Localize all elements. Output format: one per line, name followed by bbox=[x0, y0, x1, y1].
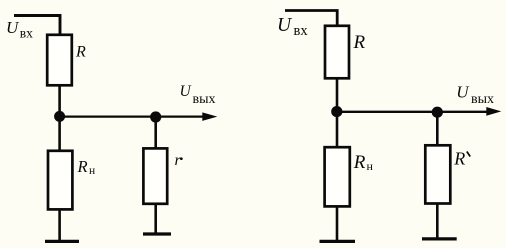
ground under r left bbox=[143, 232, 171, 235]
svg-text:н: н bbox=[89, 165, 95, 177]
svg-text:U: U bbox=[277, 15, 293, 36]
arrow: output right bbox=[486, 107, 501, 116]
wire: r to ground left bbox=[154, 203, 157, 233]
wire: left circuit input (horizontal then down to R) bbox=[14, 16, 60, 35]
svg-text:R: R bbox=[77, 157, 88, 176]
resistor R left bbox=[47, 35, 72, 86]
svg-text:R: R bbox=[353, 32, 366, 53]
svg-text:r: r bbox=[175, 152, 182, 169]
wire: node2 to R' right bbox=[436, 112, 439, 145]
ground under R_n left bbox=[45, 240, 79, 243]
svg-text:вх: вх bbox=[20, 25, 33, 40]
wire: R' to ground right bbox=[436, 203, 439, 238]
wire: node1 to R_n left bbox=[58, 116, 61, 150]
resistor r left bbox=[143, 148, 167, 203]
svg-text:вх: вх bbox=[294, 23, 309, 39]
wire: R_n to ground left bbox=[58, 209, 61, 241]
svg-text:U: U bbox=[6, 18, 20, 37]
resistor R' right bbox=[425, 145, 450, 203]
svg-text:н: н bbox=[367, 159, 374, 173]
node junction 1 left bbox=[54, 111, 65, 122]
svg-text:R: R bbox=[75, 44, 86, 61]
ground under R_n right bbox=[320, 240, 356, 243]
resistor R_n left bbox=[48, 151, 72, 210]
node junction 2 right bbox=[432, 107, 443, 118]
ground under R' right bbox=[422, 237, 457, 240]
wire: node2 to r left bbox=[154, 117, 157, 148]
wire: R bottom to node 1 left bbox=[58, 86, 61, 116]
wire: output line right bbox=[337, 111, 496, 113]
wire: right circuit input (horizontal then down to R) bbox=[285, 11, 337, 27]
wire: R bottom to node 1 right bbox=[336, 78, 339, 112]
wire: output line left bbox=[60, 115, 212, 117]
resistor R_n right bbox=[325, 147, 350, 206]
svg-text:U: U bbox=[180, 83, 193, 100]
node junction 2 left bbox=[150, 111, 161, 122]
svg-text:вых: вых bbox=[193, 92, 216, 107]
svg-text:U: U bbox=[456, 83, 470, 102]
svg-text:R: R bbox=[353, 152, 366, 173]
node junction 1 right bbox=[331, 106, 342, 117]
svg-text:R: R bbox=[453, 149, 465, 169]
arrow: output left bbox=[202, 112, 217, 121]
resistor R right bbox=[325, 26, 349, 79]
wire: R_n to ground right bbox=[336, 206, 339, 241]
svg-text:вых: вых bbox=[471, 92, 494, 107]
wire: node1 to R_n right bbox=[336, 112, 339, 147]
